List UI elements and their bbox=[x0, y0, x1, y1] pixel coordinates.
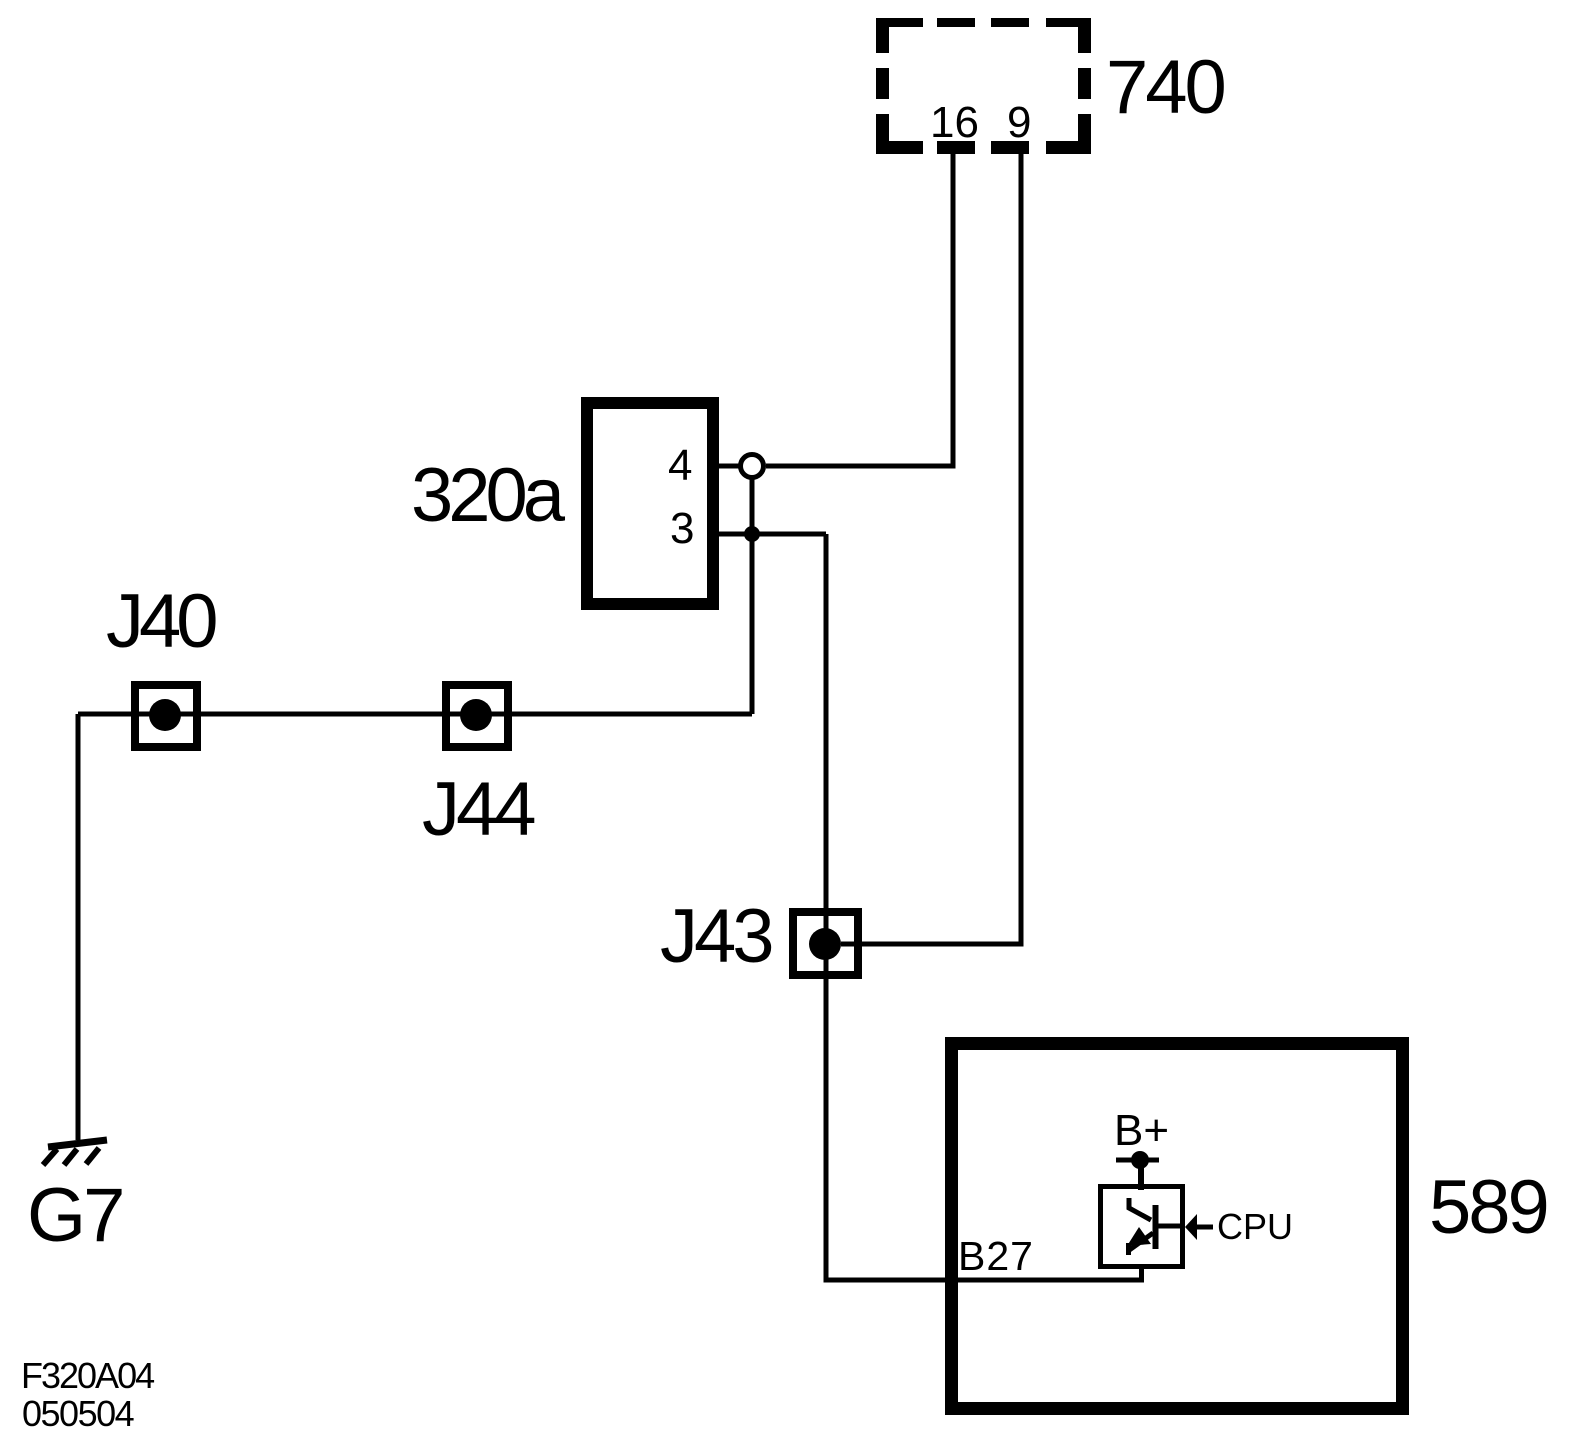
splice J40 (square with dot) bbox=[135, 685, 197, 747]
pin 4 terminal circle bbox=[741, 455, 764, 478]
svg-text:CPU: CPU bbox=[1217, 1206, 1293, 1247]
splice J43 (square with dot) bbox=[793, 912, 858, 975]
wire: B+ dot to transistor box bbox=[1138, 1168, 1144, 1190]
transistor base bar bbox=[1153, 1205, 1159, 1249]
B+ terminal bar bbox=[1116, 1158, 1159, 1163]
ECU 589 (box) bbox=[952, 1044, 1403, 1409]
pin 16 mark of 740 bbox=[937, 141, 975, 154]
transistor emitter with arrow bbox=[1128, 1233, 1153, 1251]
svg-text:J40: J40 bbox=[106, 579, 216, 664]
CPU arrow bbox=[1185, 1214, 1197, 1240]
connector 740 (dashed box) bbox=[876, 18, 1091, 154]
svg-text:3: 3 bbox=[670, 504, 694, 553]
svg-text:4: 4 bbox=[668, 441, 692, 490]
svg-text:B+: B+ bbox=[1114, 1106, 1169, 1155]
wire: down to ground G7 bbox=[76, 714, 81, 1140]
pin 3 stub wire bbox=[713, 532, 826, 537]
wire: 740 pin 9 down to J43 bbox=[841, 154, 1021, 944]
transistor base lead bbox=[1158, 1224, 1183, 1229]
component 320a (box) bbox=[587, 403, 713, 604]
transistor box bbox=[1101, 1187, 1183, 1267]
transistor emitter stub to B27 wire bbox=[1139, 1267, 1144, 1282]
splice J44 (square with dot) bbox=[446, 685, 508, 747]
wire: 740 pin 16 down to pin 4 of 320a bbox=[766, 154, 953, 466]
svg-text:J43: J43 bbox=[660, 894, 771, 979]
pin 9 mark of 740 bbox=[991, 141, 1029, 154]
svg-text:F320A04: F320A04 bbox=[21, 1355, 154, 1396]
svg-text:B27: B27 bbox=[958, 1233, 1034, 1279]
svg-text:9: 9 bbox=[1007, 98, 1031, 147]
svg-text:G7: G7 bbox=[27, 1173, 122, 1258]
svg-text:16: 16 bbox=[930, 98, 979, 147]
ground symbol G7 bbox=[43, 1140, 107, 1165]
svg-text:J44: J44 bbox=[422, 767, 535, 852]
svg-text:589: 589 bbox=[1429, 1165, 1547, 1250]
pin 4 stub wire bbox=[713, 464, 741, 469]
svg-text:050504: 050504 bbox=[22, 1393, 134, 1434]
wire: J40 J44 horizontal bbox=[78, 712, 752, 717]
wire: pin 4 circle down to J40/J44 wire bbox=[750, 477, 755, 714]
junction dot at pin 3 bbox=[744, 526, 760, 542]
svg-text:320a: 320a bbox=[411, 453, 566, 538]
B+ terminal dot bbox=[1131, 1151, 1149, 1169]
wire: pin 3 down through J43 to B27 bbox=[826, 534, 1144, 1280]
svg-text:740: 740 bbox=[1106, 45, 1225, 130]
transistor collector stub bbox=[1129, 1198, 1151, 1220]
